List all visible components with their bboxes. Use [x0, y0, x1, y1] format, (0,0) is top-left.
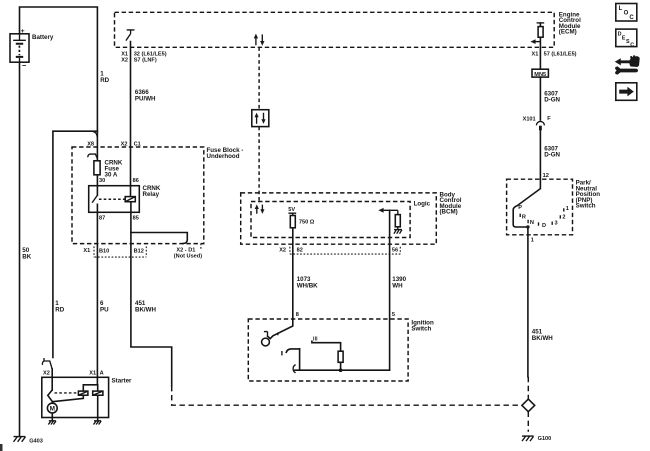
svg-text:X2: X2	[279, 247, 286, 253]
svg-text:WH: WH	[392, 282, 403, 289]
svg-text:X2: X2	[121, 57, 128, 63]
svg-text:X1: X1	[121, 51, 128, 57]
svg-text:F: F	[547, 116, 551, 122]
svg-text:30: 30	[99, 178, 105, 184]
svg-text:D-GN: D-GN	[544, 152, 560, 159]
svg-text:X8: X8	[87, 142, 94, 148]
svg-text:X2: X2	[43, 371, 50, 377]
svg-text:A: A	[100, 370, 104, 376]
svg-text:RD: RD	[100, 77, 109, 84]
svg-text:X1: X1	[89, 370, 96, 376]
svg-text:Relay: Relay	[143, 191, 160, 198]
svg-text:Underhood: Underhood	[207, 153, 240, 160]
svg-text:WH/BK: WH/BK	[297, 282, 318, 289]
svg-text:Battery: Battery	[32, 34, 54, 41]
svg-text:12: 12	[543, 173, 549, 179]
svg-text:C1: C1	[134, 142, 141, 148]
svg-text:G100: G100	[538, 436, 552, 442]
svg-text:30 A: 30 A	[105, 172, 118, 179]
svg-text:N: N	[530, 220, 534, 226]
svg-text:+: +	[21, 28, 25, 35]
svg-text:X101: X101	[523, 116, 536, 122]
svg-text:S7 (LNF): S7 (LNF)	[134, 57, 157, 63]
svg-text:III: III	[313, 337, 318, 343]
svg-text:32 (L61/LE5): 32 (L61/LE5)	[134, 51, 167, 57]
svg-text:82: 82	[297, 248, 303, 254]
svg-text:750 Ω: 750 Ω	[299, 220, 315, 226]
svg-text:3: 3	[555, 221, 558, 227]
svg-text:B10: B10	[99, 248, 109, 254]
svg-text:MN5: MN5	[534, 72, 546, 78]
svg-text:C: C	[630, 42, 634, 48]
svg-text:BK: BK	[22, 253, 31, 260]
svg-text:X1: X1	[532, 51, 539, 57]
svg-text:1: 1	[566, 206, 569, 212]
svg-text:RD: RD	[55, 306, 64, 313]
svg-text:C: C	[629, 15, 634, 21]
svg-text:PU/WH: PU/WH	[135, 95, 156, 102]
svg-text:B12: B12	[134, 248, 144, 254]
svg-text:−: −	[22, 61, 27, 70]
svg-text:Starter: Starter	[112, 377, 133, 384]
svg-text:L: L	[619, 6, 623, 12]
svg-text:Switch: Switch	[411, 326, 431, 333]
svg-text:BK/WH: BK/WH	[135, 306, 156, 313]
svg-text:86: 86	[133, 178, 139, 184]
svg-text:8: 8	[296, 312, 299, 318]
svg-text:M: M	[50, 406, 55, 413]
svg-text:2: 2	[562, 214, 565, 220]
svg-text:85: 85	[133, 216, 139, 222]
svg-text:5: 5	[392, 312, 395, 318]
svg-text:D-GN: D-GN	[544, 97, 560, 104]
svg-text:(Not Used): (Not Used)	[174, 253, 202, 259]
svg-text:P: P	[518, 205, 522, 211]
svg-text:57 (L61/LE5): 57 (L61/LE5)	[544, 51, 577, 57]
svg-text:Logic: Logic	[414, 201, 431, 208]
svg-text:5V: 5V	[288, 207, 295, 213]
svg-text:Switch: Switch	[576, 203, 596, 210]
svg-text:(ECM): (ECM)	[559, 29, 577, 36]
svg-text:D: D	[542, 223, 546, 229]
svg-text:PU: PU	[100, 306, 109, 313]
svg-text:87: 87	[99, 216, 105, 222]
svg-text:G403: G403	[29, 438, 43, 444]
svg-text:X1: X1	[83, 248, 90, 254]
svg-text:BK/WH: BK/WH	[532, 335, 553, 342]
svg-text:1: 1	[531, 238, 534, 244]
svg-text:56: 56	[392, 248, 398, 254]
svg-text:O: O	[624, 10, 629, 16]
svg-text:X2: X2	[121, 142, 128, 148]
svg-text:(BCM): (BCM)	[440, 209, 458, 216]
svg-text:R: R	[522, 214, 526, 220]
